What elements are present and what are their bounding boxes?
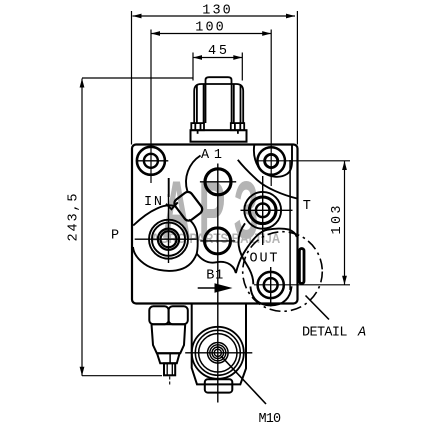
svg-text:DETAIL: DETAIL [302,326,348,341]
svg-text:IN: IN [144,195,162,210]
svg-text:103: 103 [330,206,345,235]
svg-text:A: A [357,326,366,341]
svg-text:M10: M10 [259,412,282,424]
svg-text:130: 130 [202,3,231,18]
svg-text:OUT: OUT [250,252,278,267]
svg-text:243,5: 243,5 [66,194,81,242]
svg-text:T: T [303,199,311,214]
svg-text:P: P [111,228,119,243]
svg-text:B1: B1 [206,268,223,283]
svg-text:100: 100 [195,20,224,35]
